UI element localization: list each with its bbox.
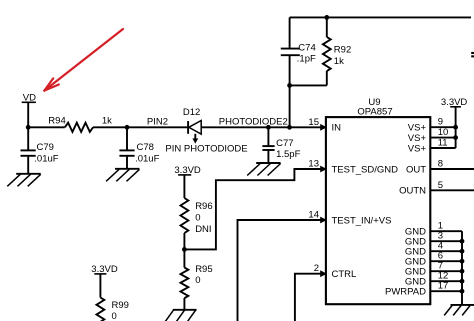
svg-text:R94: R94: [48, 115, 65, 126]
svg-text:PIN PHOTODIODE: PIN PHOTODIODE: [165, 144, 247, 155]
svg-text:R99: R99: [112, 300, 129, 311]
svg-text:0: 0: [195, 212, 200, 223]
svg-text:0: 0: [112, 311, 117, 321]
svg-text:DNI: DNI: [195, 224, 211, 235]
svg-text:OPA857: OPA857: [357, 107, 392, 118]
svg-text:.1pF: .1pF: [297, 54, 316, 65]
svg-text:11: 11: [438, 138, 448, 149]
svg-text:C77: C77: [276, 138, 293, 149]
svg-text:3.3VD: 3.3VD: [441, 97, 468, 108]
svg-text:13: 13: [308, 159, 319, 170]
svg-text:PWRPAD: PWRPAD: [385, 287, 426, 298]
svg-text:VS+: VS+: [408, 123, 427, 134]
svg-text:VD: VD: [23, 92, 36, 103]
svg-text:1.5pF: 1.5pF: [276, 149, 300, 160]
svg-text:1k: 1k: [102, 115, 112, 126]
svg-text:0: 0: [195, 275, 200, 286]
svg-text:5: 5: [438, 180, 443, 191]
svg-text:IN: IN: [332, 123, 342, 134]
svg-text:8: 8: [438, 159, 443, 170]
svg-text:R92: R92: [334, 45, 351, 56]
svg-text:TEST_IN/+VS: TEST_IN/+VS: [332, 215, 392, 226]
svg-text:2: 2: [314, 263, 319, 274]
svg-text:10: 10: [438, 127, 449, 138]
svg-text:VS+: VS+: [408, 143, 427, 154]
svg-text:3.3VD: 3.3VD: [91, 264, 118, 275]
svg-text:C74: C74: [298, 42, 315, 53]
svg-text:PIN2: PIN2: [147, 117, 168, 128]
svg-text:.01uF: .01uF: [34, 154, 58, 165]
svg-text:OUT: OUT: [406, 164, 426, 175]
svg-text:R95: R95: [195, 264, 212, 275]
svg-text:.01uF: .01uF: [135, 154, 159, 165]
svg-text:C78: C78: [137, 142, 154, 153]
svg-text:9: 9: [438, 117, 443, 128]
svg-text:PHOTODIODE2: PHOTODIODE2: [219, 117, 288, 128]
svg-text:C79: C79: [37, 142, 54, 153]
svg-text:D12: D12: [183, 107, 200, 118]
svg-text:VS+: VS+: [408, 133, 427, 144]
svg-text:15: 15: [308, 117, 319, 128]
svg-text:TEST_SD/GND: TEST_SD/GND: [332, 164, 399, 175]
svg-text:CTRL: CTRL: [332, 269, 357, 280]
svg-text:14: 14: [308, 210, 319, 221]
svg-text:R96: R96: [195, 201, 212, 212]
svg-text:3.3VD: 3.3VD: [174, 165, 201, 176]
svg-text:1k: 1k: [334, 56, 344, 67]
svg-text:OUTN: OUTN: [399, 186, 426, 197]
svg-text:17: 17: [438, 281, 449, 292]
